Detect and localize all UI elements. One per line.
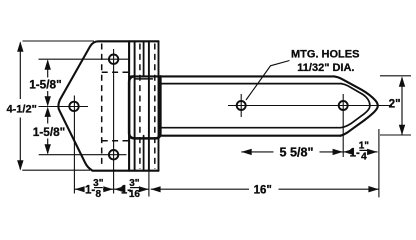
holes [69,55,347,160]
hidden strap end behind plate: vertical [101,44,103,165]
arrow 1-5/8 top [45,59,51,69]
dim 1-5/8 upper [47,61,49,78]
pin bore left [139,44,141,169]
svg-text:8: 8 [96,189,102,200]
ext top of plate [23,40,95,42]
strap hole 2 vertical tick + extension [342,94,344,157]
barrel left edge [134,41,136,170]
svg-text:1-5/8": 1-5/8" [33,125,65,139]
arrow bowtie down [45,96,51,106]
middle hole horizontal centerline [39,106,89,108]
dimension lines [20,43,402,190]
arrow 1-3/8 left [75,186,85,192]
strap holes centerline [228,105,392,107]
svg-text:11/32" DIA.: 11/32" DIA. [297,62,354,74]
dim 4-1/2 vertical [19,43,21,99]
hole strap 1 [237,101,246,110]
plate holes vertical centerline + lower extension [113,49,115,194]
barrel right edge [158,41,160,170]
extension lines [22,41,411,170]
arrow 4-1/2 bottom [17,160,23,170]
svg-text:MTG. HOLES: MTG. HOLES [291,49,359,61]
svg-text:5 5/8": 5 5/8" [280,146,314,160]
centerlines [39,49,393,197]
svg-text:16: 16 [129,189,141,200]
arrow 2in bottom [399,125,405,135]
top hole horizontal centerline [39,58,130,60]
butt plate outline [58,41,158,170]
dim 1-5/8 lower [47,109,49,124]
dim 2in vertical [401,77,403,134]
knuckle inner line upper [143,41,145,76]
arrow 1-3/16 right [139,186,149,192]
hidden (dashed) lines [102,44,155,169]
arrow 1-3/16 left [114,186,124,192]
arrow 16 left [151,186,161,192]
hole strap 2 [339,101,348,110]
svg-text:16": 16" [254,184,272,196]
leader to mtg hole [246,61,290,101]
ext 2in bottom [380,134,411,136]
arrow 5-5/8 right [333,149,343,155]
hole plate top [109,55,118,64]
hidden bottom edge [102,140,129,142]
curl seam line [136,78,153,80]
hole plate bottom [109,150,118,159]
svg-text:4-1/2": 4-1/2" [7,103,37,115]
strap tip inner [337,84,370,128]
strap inner top line [159,83,342,85]
arrow 5-5/8 left [241,149,251,155]
strap inner bottom line [162,127,338,129]
plate right edge / strap left edge [128,41,130,170]
hidden top edge [102,71,129,73]
dim 5-5/8 [241,151,273,153]
bottom hole horizontal centerline [39,154,127,156]
strap curl block [129,76,160,138]
arrow 1-3/8 right [103,186,113,192]
arrow 16 right [368,186,378,192]
dim 16in [151,188,249,190]
arrow 1-1/4 left [343,149,353,155]
svg-text:4: 4 [361,152,367,163]
arrow 1-1/4 right [367,149,377,155]
arrow 4-1/2 top [17,41,23,51]
pin center extension below [148,171,150,197]
strap bottom edge [161,135,341,137]
strap hole 1 vertical tick [240,94,242,117]
strap top edge [131,75,335,77]
svg-text:1-5/8": 1-5/8" [29,77,61,91]
strap tip outer [334,76,378,135]
tip extension vertical [378,129,380,197]
svg-text:2": 2" [389,97,401,110]
arrow 1-5/8 bottom [45,144,51,154]
knuckle inner line lower [143,136,145,171]
dim 1-3/8 bottom [75,188,84,190]
arrow 2in top [399,77,405,87]
arrow bowtie up [45,107,51,117]
ext bottom of plate [22,169,90,171]
pin seam center [148,41,150,170]
ext 2in top [380,75,411,77]
dim 1-1/4 [343,151,349,153]
middle hole vertical centerline + extension [73,96,75,194]
dim 1-3/16 bottom [114,188,122,190]
hole plate middle [69,102,78,111]
arrowheads [17,41,405,192]
pin bore right [154,44,156,169]
